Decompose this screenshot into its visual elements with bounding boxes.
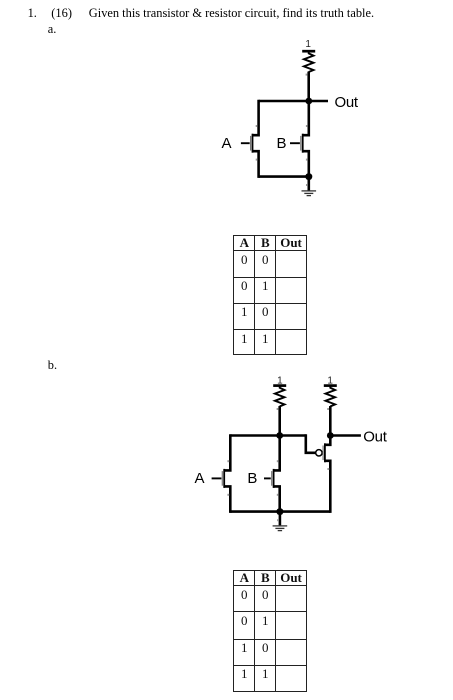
wire Q5 drain to Out node bbox=[325, 436, 330, 445]
wire R2 down to node bbox=[278, 406, 281, 435]
wire node down to Q2 drain bbox=[303, 101, 309, 177]
transistor Q1 (A) channel bbox=[252, 134, 254, 153]
svg-text:Out: Out bbox=[363, 429, 387, 446]
wire Q5 source down to bottom rail bbox=[325, 461, 330, 513]
transistor Q5 gate bar bbox=[322, 446, 324, 461]
pin nubs Q4 bbox=[277, 460, 279, 462]
power rail bar right bbox=[324, 384, 337, 387]
pin nub R2 bbox=[277, 408, 279, 410]
wire node down to Q1 drain bbox=[253, 100, 259, 178]
transistor Q2 gate lead bbox=[290, 142, 300, 144]
pin nubs Q1 bbox=[256, 125, 258, 127]
pin nubs Q2 bbox=[306, 125, 308, 127]
wire to ground bbox=[307, 177, 310, 191]
resistor R1 bbox=[304, 51, 314, 72]
node Out junction dot bbox=[327, 432, 334, 439]
transistor Q1 gate bar bbox=[250, 136, 252, 151]
wire rail corner down to Q5 gate bubble bbox=[306, 434, 316, 453]
wire top rail to left branch bbox=[259, 100, 309, 103]
wire node down to Q3 drain bbox=[224, 434, 230, 513]
transistor Q5 channel bbox=[324, 443, 326, 462]
resistor R3 bbox=[325, 386, 335, 407]
pin nub resistor bbox=[306, 74, 308, 76]
truth table b bbox=[233, 570, 307, 692]
wire bottom rail bbox=[230, 510, 330, 513]
wire R3 down to Out node bbox=[329, 406, 332, 435]
svg-text:A: A bbox=[222, 135, 232, 152]
label b. bbox=[48, 359, 57, 371]
wire top rail bbox=[230, 434, 305, 437]
wire node to Out bbox=[309, 100, 328, 103]
transistor Q1 gate lead bbox=[241, 142, 250, 144]
circuit a bbox=[195, 34, 375, 204]
pin nubs Q3 bbox=[227, 460, 229, 462]
power rail bar bbox=[302, 50, 315, 53]
wire bottom rail bbox=[259, 175, 309, 178]
pin nub ground bbox=[277, 519, 279, 521]
pin nub ground bbox=[306, 184, 308, 186]
wire node down to Q4 drain bbox=[274, 436, 280, 512]
transistor Q3 gate lead bbox=[212, 477, 222, 479]
svg-text:B: B bbox=[277, 135, 287, 152]
svg-text:Out: Out bbox=[335, 94, 359, 111]
svg-text:1: 1 bbox=[305, 39, 311, 50]
transistor Q4 gate bar bbox=[271, 471, 273, 486]
label a. bbox=[48, 23, 57, 35]
truth table a bbox=[233, 235, 307, 355]
svg-text:A: A bbox=[195, 470, 205, 487]
pin nub Q5 bbox=[327, 468, 329, 470]
transistor Q3 gate bar bbox=[221, 471, 223, 486]
resistor R2 bbox=[275, 386, 285, 407]
ground bbox=[302, 191, 317, 196]
transistor Q2 gate bar bbox=[300, 136, 302, 151]
svg-text:B: B bbox=[247, 470, 257, 487]
node ground junction dot bbox=[305, 173, 312, 180]
wire Out node to Out bbox=[330, 434, 361, 437]
circuit b bbox=[185, 370, 400, 540]
power rail bar left bbox=[273, 384, 286, 387]
transistor Q3 (A) channel bbox=[223, 469, 225, 488]
transistor Q5 gate bubble bbox=[316, 450, 322, 456]
node Out junction dot bbox=[305, 98, 312, 105]
wire R1 to Out node bbox=[307, 72, 310, 101]
wire to ground bbox=[279, 512, 282, 526]
transistor Q2 (B) channel bbox=[302, 134, 304, 153]
node ground junction dot bbox=[276, 508, 283, 515]
problem text line 1 bbox=[28, 7, 37, 19]
pin nub R3 bbox=[327, 408, 329, 410]
ground bbox=[273, 526, 288, 531]
transistor Q4 gate lead bbox=[264, 477, 271, 479]
node left junction dot bbox=[276, 432, 283, 439]
transistor Q4 (B) channel bbox=[273, 469, 275, 488]
